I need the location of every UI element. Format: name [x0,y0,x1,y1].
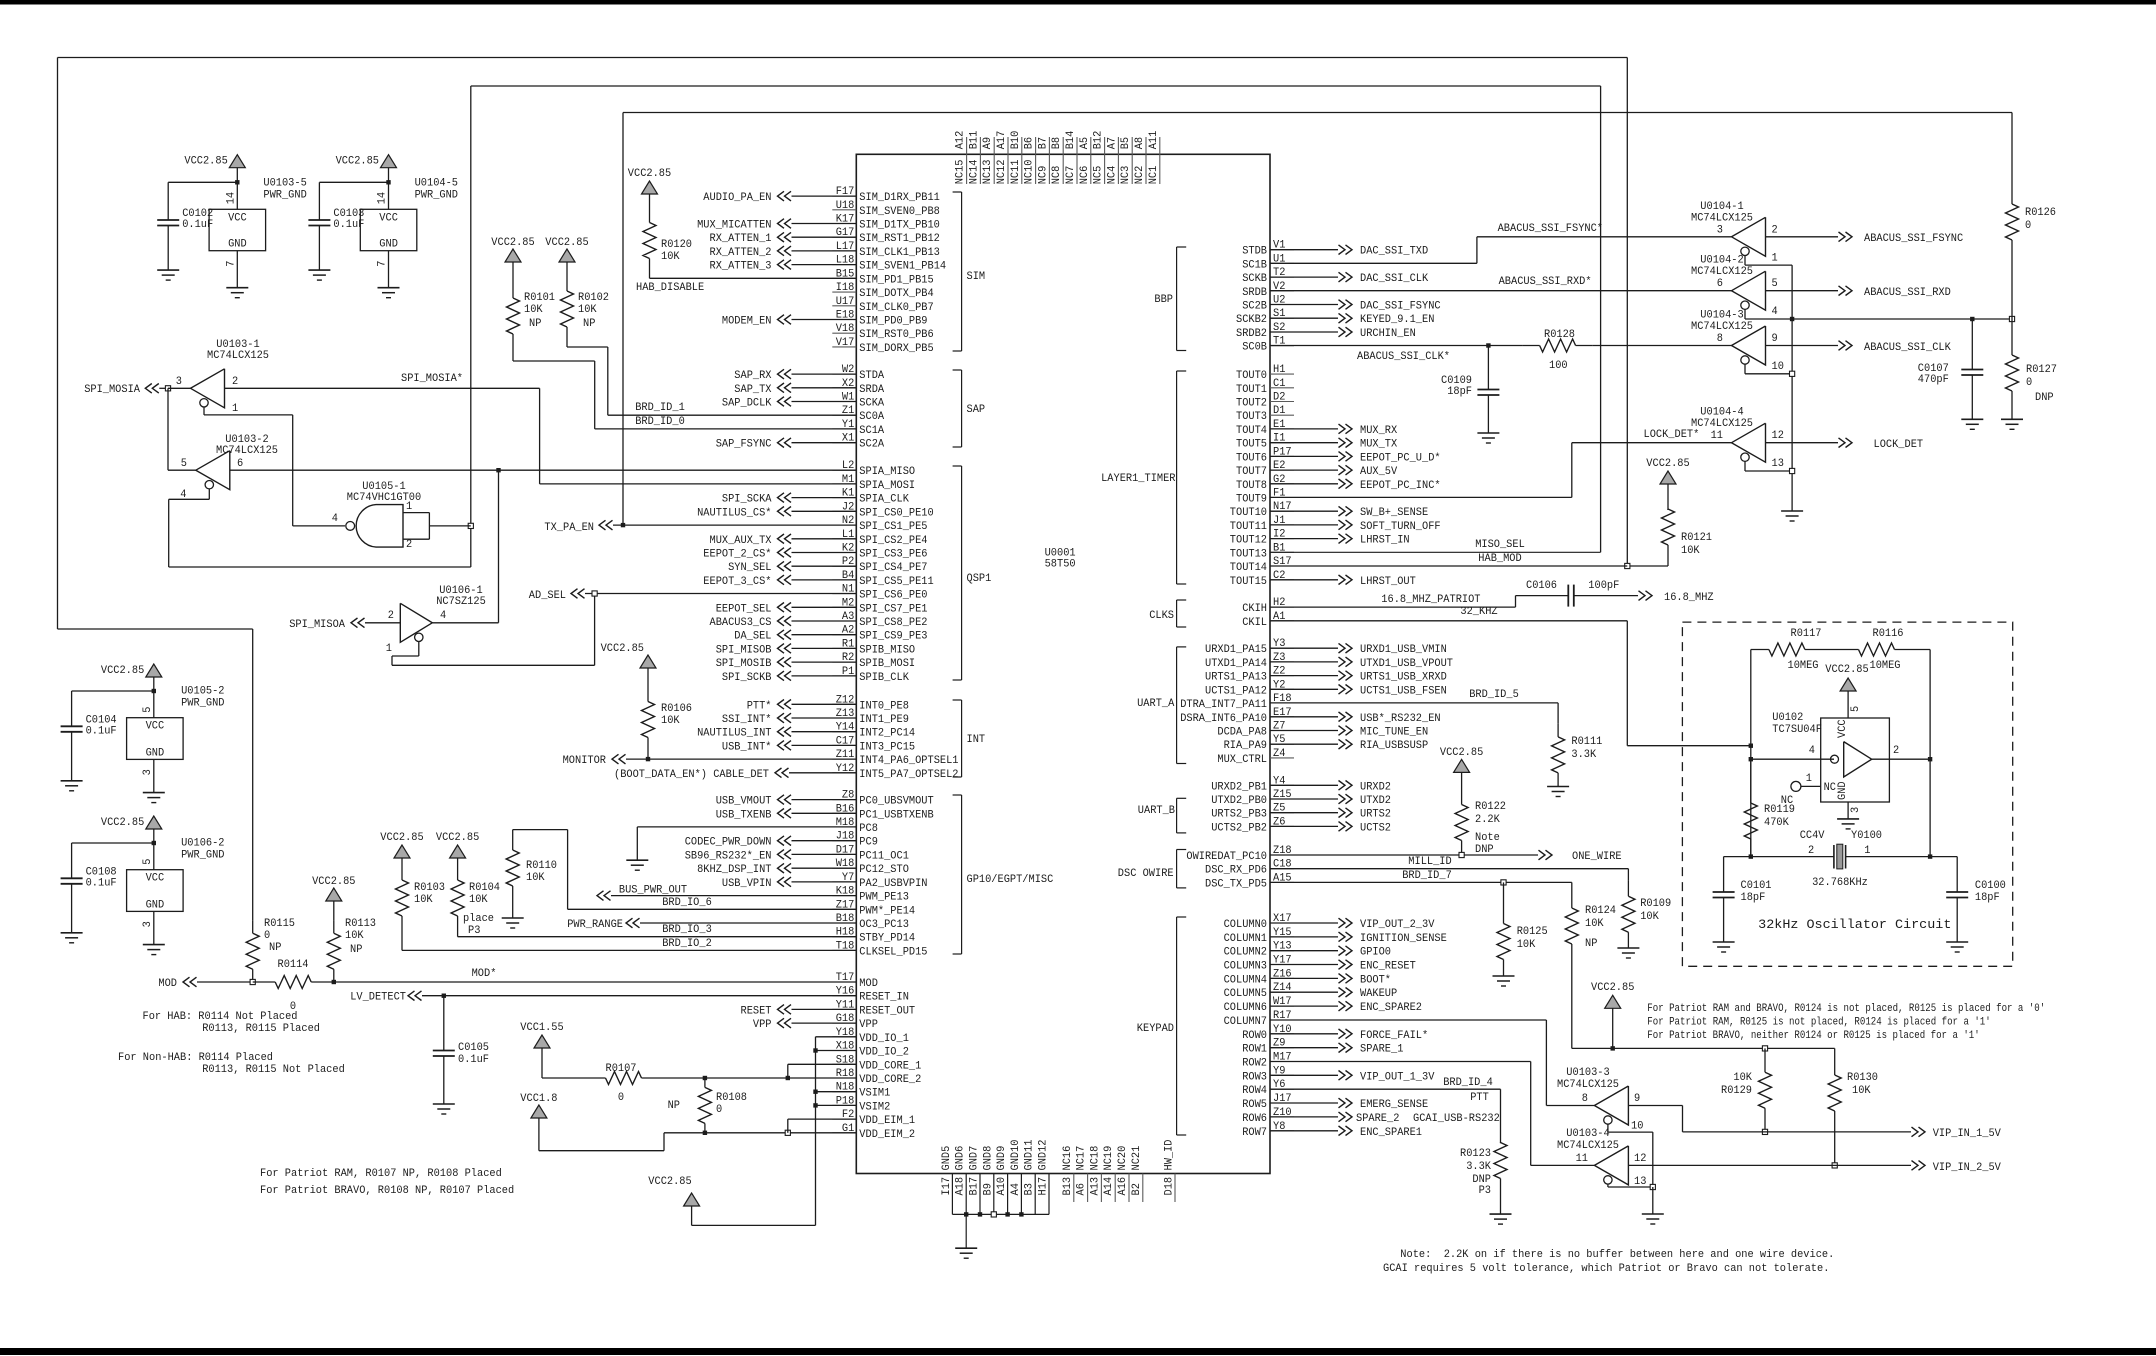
svg-text:4: 4 [1772,306,1779,318]
pin X1 SC2A [832,442,856,444]
svg-text:0: 0 [716,1104,722,1116]
svg-text:SPI_CS3_PE6: SPI_CS3_PE6 [859,549,927,561]
svg-text:GND: GND [1837,781,1849,800]
svg-text:TOUT4: TOUT4 [1236,425,1267,437]
svg-text:SIM: SIM [967,271,986,283]
power flag VCC2.85 (U0102) [1840,678,1856,691]
pin T2 SCKB [1270,276,1294,278]
svg-text:SPI_MOSIA*: SPI_MOSIA* [401,373,463,385]
power flag VCC2.85 (bottom center) [684,1193,700,1206]
ground (U0104-5) [378,287,400,289]
pin B7 NC9 (top) [1048,137,1050,154]
svg-text:U0104-4: U0104-4 [1700,407,1744,419]
pin Y16 RESET_IN [832,995,856,997]
svg-text:NC18: NC18 [1089,1146,1101,1171]
resistor R0104 10K place P3 [457,868,459,880]
wire left frame vertical x58 [57,58,59,630]
power flag VCC1.8 [531,1105,547,1118]
pin M1 SPIA_MOSI [832,483,856,485]
resistor R0116 10MEG [1823,649,1859,651]
wire left frame y629 [58,628,253,630]
wire MISO_SEL top run y86 [471,85,1601,87]
ground (C0104) [61,780,83,782]
svg-text:A11: A11 [1148,130,1160,149]
svg-text:10K: 10K [469,894,488,906]
svg-text:B13: B13 [1062,1177,1074,1196]
svg-text:URXD1_USB_VMIN: URXD1_USB_VMIN [1360,644,1447,656]
wire VCC2.85 rail [1572,1047,1835,1049]
net UTXD1_USB_VPOUT [1270,661,1338,663]
svg-text:STBY_PD14: STBY_PD14 [859,933,915,945]
ground (U0001 GND pins) [955,1247,977,1249]
resistor R0113 10K NP [333,920,335,933]
capacitor C0108 0.1uF [61,877,83,879]
svg-text:NC4: NC4 [1106,165,1118,184]
group bracket QSP1 [961,466,963,680]
bottom border bar [0,1348,2156,1355]
svg-text:COLUMN5: COLUMN5 [1224,988,1267,1000]
pin B17 GND7 (bottom) [979,1174,981,1215]
pin W2 STDA [832,373,856,375]
svg-text:UTXD2: UTXD2 [1360,795,1391,807]
svg-text:BUS_PWR_OUT: BUS_PWR_OUT [619,885,688,897]
pin K18 PWM_PE13 [832,895,856,897]
svg-text:QSP1: QSP1 [967,573,992,585]
wire U0103-2 out to pin L2 (SPIA_MISO) [230,469,857,471]
wire NAND inputs tie [403,512,429,514]
pin T1 SC0B [1270,345,1294,347]
resistor R0117 10MEG [1751,649,1769,651]
svg-text:TOUT7: TOUT7 [1236,466,1267,478]
pin B13 NC16 (bottom) [1073,1174,1075,1203]
wire MISO_SEL vertical x471 [470,86,472,526]
svg-text:5: 5 [142,859,154,865]
svg-text:ROW6: ROW6 [1242,1113,1267,1125]
pin Z5 URTS2_PB3 [1270,812,1294,814]
svg-text:VCC2.85: VCC2.85 [184,156,227,168]
pin Y11 RESET_OUT [832,1008,856,1010]
pin B5 NC3 (top) [1131,137,1133,154]
pin G2 TOUT8 [1270,483,1294,485]
wire ABACUS_SSI_RXD* V2 to U0104-2 [1270,290,1732,292]
net LHRST_OUT [1270,579,1338,581]
pin B15 SIM_PD1_PB15 [832,277,856,279]
net AUX_5V [1270,469,1338,471]
svg-text:For HAB: R0114 Not Placed: For HAB: R0114 Not Placed [143,1011,298,1023]
capacitor C0107 470pF [1971,319,1973,370]
svg-text:MOD: MOD [859,978,878,990]
wire U0103-1 enable [203,407,205,415]
pin F1 TOUT9 [1270,497,1294,499]
svg-text:VIP_IN_2_5V: VIP_IN_2_5V [1933,1162,2002,1174]
svg-text:A9: A9 [982,137,994,149]
ground (R0127) [2001,418,2023,420]
power flag VCC2.85 (U0106-2) [146,816,162,829]
pin F17 SIM_D1RX_PB11 [832,195,856,197]
pin B14 NC7 (top) [1076,137,1078,154]
svg-text:R0124: R0124 [1585,905,1616,917]
wire MILL_ID row C18 to R0109 [1270,868,1628,870]
svg-text:BBP: BBP [1154,294,1173,306]
pin Z17 PWM*_PE14 [832,908,856,910]
svg-text:SRDB: SRDB [1242,287,1267,299]
svg-text:SIM_D1RX_PB11: SIM_D1RX_PB11 [859,192,940,204]
wire MISO_SEL row B1 [1270,551,1601,553]
pin U1 SC1B [1270,262,1294,264]
svg-text:A17: A17 [996,131,1008,150]
net EEPOT_PC_INC* [1270,483,1338,485]
svg-text:P3: P3 [1479,1185,1491,1197]
net MIC_TUNE_EN [1270,730,1338,732]
svg-text:SPIB_CLK: SPIB_CLK [859,672,909,684]
svg-text:ROW4: ROW4 [1242,1085,1267,1097]
svg-text:VSIM2: VSIM2 [859,1101,890,1113]
svg-text:6: 6 [237,458,243,470]
svg-text:12: 12 [1634,1153,1646,1165]
svg-text:ROW7: ROW7 [1242,1127,1267,1139]
pin T18 CLKSEL_PD15 [832,949,856,951]
svg-text:1: 1 [406,501,413,513]
svg-text:SPARE_1: SPARE_1 [1360,1044,1404,1056]
svg-text:VDD_IO_1: VDD_IO_1 [859,1033,909,1045]
net URTS1_USB_XRXD [1270,675,1338,677]
svg-text:10K: 10K [578,304,597,316]
svg-text:MODEM_EN: MODEM_EN [722,316,772,328]
svg-text:14: 14 [377,192,389,205]
pin B6 NC10 (top) [1035,137,1037,154]
svg-text:NP: NP [269,942,282,954]
svg-text:SAP_DCLK: SAP_DCLK [722,398,772,410]
svg-text:EMERG_SENSE: EMERG_SENSE [1360,1099,1429,1111]
pin P18 VSIM2 [832,1104,856,1106]
power flag VCC2.85 (R0102) [559,249,575,262]
wire BRD_IO_3 to pin H18 [458,936,857,938]
group bracket CLKS [1176,600,1178,627]
svg-text:BRD_IO_6: BRD_IO_6 [662,897,712,909]
net EEPOT_PC_U_D* [1270,455,1338,457]
svg-text:A10: A10 [996,1177,1008,1196]
ground (U0106-2) [143,944,165,946]
svg-text:SPI_CS2_PE4: SPI_CS2_PE4 [859,535,928,547]
svg-text:NAUTILUS_CS*: NAUTILUS_CS* [697,507,771,519]
wire U0103-2 enable to MISO_SEL [208,489,210,499]
resistor R0128 100 [1523,345,1540,347]
svg-text:UTXD2_PB0: UTXD2_PB0 [1211,795,1267,807]
svg-text:BRD_IO_3: BRD_IO_3 [662,924,712,936]
svg-text:U0104-1: U0104-1 [1700,201,1744,213]
wire MISO_SEL vertical x1601 [1600,86,1602,552]
pin A1 CKIL [1270,620,1294,622]
svg-text:EEPOT_PC_INC*: EEPOT_PC_INC* [1360,480,1441,492]
svg-text:R0121: R0121 [1681,532,1712,544]
svg-text:SPI_CS0_PE10: SPI_CS0_PE10 [859,507,933,519]
svg-text:R0103: R0103 [414,882,445,894]
svg-text:R0111: R0111 [1571,736,1602,748]
svg-text:I18: I18 [836,282,855,294]
resistor R0122 2.2K Note DNP [1461,790,1463,805]
svg-text:10: 10 [1631,1121,1643,1133]
svg-text:PC0_UBSVMOUT: PC0_UBSVMOUT [859,796,934,808]
svg-text:CKIL: CKIL [1242,617,1267,629]
svg-text:ENC_RESET: ENC_RESET [1360,961,1416,973]
svg-text:TOUT6: TOUT6 [1236,452,1267,464]
svg-text:TOUT11: TOUT11 [1230,521,1268,533]
net SPARE_1 [1270,1047,1338,1049]
group bracket KEYPAD [1176,917,1178,1135]
net DAC_SSI_CLK [1270,276,1338,278]
net DAC_SSI_TXD [1270,249,1338,251]
pin W1 SCKA [832,401,856,403]
svg-text:R0101: R0101 [524,292,555,304]
wire MOD* to pin T17 [334,981,857,983]
svg-text:VCC2.85: VCC2.85 [1591,982,1634,994]
pin E17 DSRA_INT6_PA10 [1270,716,1294,718]
pin U2 SC2B [1270,304,1294,306]
pin Z8 PC0_UBSVMOUT [832,799,856,801]
svg-text:For Patriot RAM and BRAVO, R01: For Patriot RAM and BRAVO, R0124 is not … [1647,1003,2045,1015]
pin J2 SPI_CS0_PE10 [832,510,856,512]
svg-text:SIM_CLK1_PB13: SIM_CLK1_PB13 [859,247,940,259]
resistor R0111 3.3K [1557,723,1559,737]
resistor R0119 470K [1750,759,1752,803]
group bracket UART_A [1176,647,1178,764]
wire SPI_MOSIA to U0103-2 pin 5 [167,388,169,470]
svg-text:R0122: R0122 [1475,801,1506,813]
svg-text:SIM_SVEN1_PB14: SIM_SVEN1_PB14 [859,261,946,273]
capacitor C0104 0.1uF [61,725,83,727]
wire ABACUS_SSI_CLK* T1 through R0128 [1270,345,1523,347]
power flag VCC2.85 (U0103-5) [229,155,245,168]
svg-text:UCTS2_PB2: UCTS2_PB2 [1211,822,1267,834]
pin Y13 COLUMN2 [1270,950,1294,952]
svg-text:TOUT9: TOUT9 [1236,494,1267,506]
pin Z4 MUX_CTRL [1270,757,1294,759]
svg-text:SRDA: SRDA [859,384,884,396]
svg-text:0.1uF: 0.1uF [86,725,117,737]
wire U0103-4 enable to ground [1607,1184,1609,1187]
svg-text:VIP_IN_1_5V: VIP_IN_1_5V [1933,1128,2002,1140]
pin J1 TOUT11 [1270,524,1294,526]
pin B11 NC14 (top) [979,137,981,154]
svg-text:For Patriot BRAVO, R0108 NP, R: For Patriot BRAVO, R0108 NP, R0107 Place… [260,1185,514,1197]
pin N18 VSIM1 [832,1091,856,1093]
pin L1 SPI_CS2_PE4 [832,538,856,540]
svg-text:VCC2.85: VCC2.85 [648,1176,691,1188]
resistor R0115 0 NP [252,920,254,933]
svg-text:MUX_AUX_TX: MUX_AUX_TX [710,535,772,547]
svg-text:USB*_RS232_EN: USB*_RS232_EN [1360,713,1441,725]
svg-text:DAC_SSI_TXD: DAC_SSI_TXD [1360,246,1429,258]
resistor R0120 10K [649,205,651,223]
svg-text:V17: V17 [836,337,855,349]
svg-text:A14: A14 [1103,1177,1115,1196]
ground (C0103) [308,269,330,271]
pin Y4 URXD2_PB1 [1270,784,1294,786]
svg-text:URXD2: URXD2 [1360,781,1391,793]
svg-text:COLUMN7: COLUMN7 [1224,1016,1267,1028]
pin Y2 UCTS1_PA12 [1270,688,1294,690]
wire U0106-1 out to SPIA_MISO net [432,622,498,624]
wire VDD_CORE_2 row [705,1077,856,1079]
pin I2 TOUT12 [1270,538,1294,540]
pin L18 SIM_SVEN1_PB14 [832,264,856,266]
svg-text:8: 8 [1717,333,1723,345]
pin A15 DSC_TX_PD5 [1270,881,1294,883]
svg-text:PWR_GND: PWR_GND [415,189,459,201]
svg-text:1: 1 [386,643,393,655]
svg-text:PWR_GND: PWR_GND [181,850,225,862]
wire U0104-2 enable [1744,309,1746,319]
svg-text:VCC2.85: VCC2.85 [101,817,144,829]
wire BRD_ID_0 R0101 to pin Y1 [513,360,595,362]
svg-text:SPI_CS9_PE3: SPI_CS9_PE3 [859,631,927,643]
pin Z13 INT1_PE9 [832,717,856,719]
wire U0104-3 enable [1744,364,1746,374]
net DAC_SSI_FSYNC [1270,304,1338,306]
wire LOCK_DET* TOUT9 to U0104-4 [1270,496,1572,498]
svg-text:TX_PA_EN: TX_PA_EN [544,522,594,534]
wire HAB_MOD top run y58 [58,57,1628,59]
svg-text:LOCK_DET: LOCK_DET [1874,439,1924,451]
pin G18 VPP [832,1022,856,1024]
svg-text:10K: 10K [1585,918,1604,930]
pin F18 DTRA_INT7_PA11 [1270,702,1294,704]
svg-text:3: 3 [1717,224,1723,236]
svg-text:ENC_SPARE2: ENC_SPARE2 [1360,1002,1422,1014]
pin A5 NC6 (top) [1090,137,1092,154]
svg-text:2: 2 [232,376,238,388]
pin E1 TOUT4 [1270,428,1294,430]
svg-text:18pF: 18pF [1975,892,2000,904]
resistor R0124 10K NP [1571,882,1573,892]
net URTS2 [1270,812,1338,814]
svg-text:NC11: NC11 [1010,159,1022,184]
svg-text:Note: Note [1475,832,1500,844]
svg-text:NC: NC [1824,782,1837,794]
wire PC8 to ground [637,826,856,828]
ground (C0100) [1946,941,1968,943]
pin N1 SPI_CS6_PE0 [832,593,856,595]
svg-text:SPIA_CLK: SPIA_CLK [859,494,909,506]
pin M17 ROW2 [1270,1061,1294,1063]
svg-text:TC7SU04F: TC7SU04F [1772,724,1822,736]
svg-text:FORCE_FAIL*: FORCE_FAIL* [1360,1030,1428,1042]
net SOFT_TURN_OFF [1270,524,1338,526]
pin E2 TOUT7 [1270,469,1294,471]
svg-text:100pF: 100pF [1588,580,1619,592]
wire U0104-4 enable [1744,461,1746,471]
wire TX_PA_EN vertical x623 [622,113,624,526]
svg-text:B9: B9 [982,1183,994,1195]
svg-text:0: 0 [264,930,270,942]
svg-text:5: 5 [1850,706,1862,712]
svg-text:CLKSEL_PD15: CLKSEL_PD15 [859,946,927,958]
pin Z2 URTS1_PA13 [1270,675,1294,677]
svg-text:SCKB2: SCKB2 [1236,314,1267,326]
svg-text:URXD1_PA15: URXD1_PA15 [1205,644,1267,656]
svg-text:2: 2 [1772,224,1778,236]
svg-text:10K: 10K [661,715,680,727]
svg-text:A16: A16 [1117,1177,1129,1196]
pin S17 TOUT14 [1270,565,1294,567]
wire VCC to C0108 [152,841,156,845]
wire BRD_ID_4 ROW4 to R0123 [1270,1088,1501,1090]
svg-text:VCC1.55: VCC1.55 [520,1022,563,1034]
svg-text:NC14: NC14 [968,159,980,184]
svg-text:VCC2.85: VCC2.85 [601,643,644,655]
svg-text:VDD_EIM_1: VDD_EIM_1 [859,1115,915,1127]
svg-text:VCC: VCC [228,212,247,224]
resistor R0106 10K [647,680,649,702]
svg-text:PC9: PC9 [859,837,878,849]
power flag VCC2.85 (R0113) [326,888,342,901]
power sub-symbol U0103-5 PWR_GND [209,209,266,250]
svg-text:SAP_RX: SAP_RX [734,370,772,382]
pin B8 NC8 (top) [1062,137,1064,154]
svg-text:WAKEUP: WAKEUP [1360,988,1398,1000]
pin G17 SIM_RST1_PB12 [832,236,856,238]
svg-text:RX_ATTEN_3: RX_ATTEN_3 [710,261,772,273]
wire SPI_MOSIA* U0103-1 out to pin M1 [225,387,540,389]
svg-text:5: 5 [1772,278,1778,290]
wire R0126 vertical x2012 [2011,113,2013,190]
svg-text:R0104: R0104 [469,882,500,894]
pin R2 SPIB_MOSI [832,661,856,663]
resistor R0129 10K [1764,1048,1766,1072]
svg-text:1: 1 [1772,252,1779,264]
ground (R0109) [1617,947,1639,949]
resistor R0114 0 [253,981,276,983]
svg-text:VDD_CORE_1: VDD_CORE_1 [859,1060,921,1072]
svg-text:NC1: NC1 [1148,165,1160,184]
svg-text:16.8_MHZ: 16.8_MHZ [1664,592,1714,604]
svg-text:DTRA_INT7_PA11: DTRA_INT7_PA11 [1180,699,1267,711]
group bracket DSC OWIRE [1176,850,1178,888]
resistor R0125 10K [1503,882,1505,907]
wire VSIM2 [813,1103,817,1107]
svg-text:URTS1_USB_XRXD: URTS1_USB_XRXD [1360,672,1447,684]
wire HAB_MOD row S17 [1270,565,1627,567]
svg-text:D1: D1 [1273,405,1286,417]
svg-text:0: 0 [2025,220,2031,232]
net MUX_TX [1270,442,1338,444]
net UTXD2 [1270,798,1338,800]
wire R0116 right to U0102 output node [1929,650,1931,857]
svg-text:GND12: GND12 [1038,1140,1050,1171]
wire BRD_ID_1 R0102 to pin Z1 [567,346,608,348]
svg-text:INT3_PC15: INT3_PC15 [859,741,915,753]
wire VDD_IO_2 [813,1048,817,1052]
ground (U0104 enables) [1781,510,1803,512]
capacitor C0106 100pF [1567,585,1569,607]
wire frame to R0115 [252,629,254,920]
ground (R0110) [512,887,514,919]
ground (U0105-2) [143,792,165,794]
wire U0104-1 enable [1744,256,1746,266]
net VIP_OUT_1_3V [1270,1074,1338,1076]
svg-text:GND: GND [146,899,165,911]
net WAKEUP [1270,991,1338,993]
pin Y18 VDD_IO_1 [832,1036,856,1038]
pin G1 VDD_EIM_2 [832,1132,856,1134]
svg-text:MUX_CTRL: MUX_CTRL [1217,754,1267,766]
svg-text:STDA: STDA [859,370,884,382]
wire VDD_EIM_1 [787,1119,789,1133]
svg-text:U0104-5: U0104-5 [415,177,458,189]
pin Z16 COLUMN4 [1270,977,1294,979]
svg-text:RIA_PA9: RIA_PA9 [1224,740,1267,752]
svg-text:NC6: NC6 [1079,166,1091,185]
